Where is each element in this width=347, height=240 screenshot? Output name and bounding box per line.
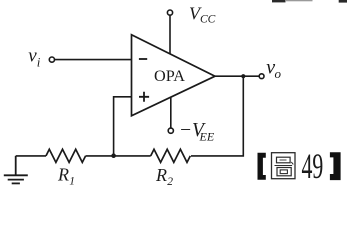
terminal circle -VEE (168, 128, 173, 133)
svg-text:R: R (155, 165, 167, 185)
resistor R2 zigzag (151, 149, 191, 162)
op-amp U1 triangle (132, 35, 216, 116)
cut-off caption at top edge: tu bottom stroke (272, 0, 286, 2)
wire op-amp bottom edge to -VEE terminal (170, 97, 172, 128)
junction node at bottom between R1 and R2 (111, 153, 116, 158)
svg-text:i: i (37, 54, 41, 69)
caption figure 49: character tu (picture) (272, 153, 296, 179)
caption figure 49: right lenticular bracket (330, 152, 341, 180)
resistor R1 zigzag (46, 149, 86, 162)
wire output junction down to R2 right end (191, 76, 243, 156)
caption figure 49: left lenticular bracket (258, 153, 266, 180)
terminal circle vo (259, 74, 264, 79)
wire R1 to node to R2 (86, 155, 151, 157)
wire op-amp noninverting input down to bottom node (114, 97, 132, 156)
junction node at output (241, 74, 245, 78)
cut-off caption at top edge: digit bottoms (286, 0, 313, 1)
svg-text:49: 49 (302, 146, 324, 186)
terminal circle vi (49, 57, 54, 62)
svg-text:o: o (275, 66, 282, 81)
svg-text:CC: CC (200, 14, 216, 26)
wire input vi to op-amp inverting input (55, 59, 132, 61)
op-amp plus pin mark (139, 92, 149, 102)
svg-text:EE: EE (199, 129, 215, 143)
svg-text:2: 2 (167, 176, 173, 188)
terminal circle VCC (167, 10, 172, 15)
op-amp minus pin mark (139, 58, 147, 60)
wire ground to R1 (16, 155, 46, 157)
cut-off caption at top edge: right bracket tip (339, 0, 347, 3)
wire VCC terminal to op-amp top edge (169, 15, 171, 54)
svg-text:R: R (57, 165, 69, 185)
wire op-amp output to vo terminal (215, 75, 259, 77)
svg-text:OPA: OPA (154, 68, 185, 85)
ground symbol (4, 156, 28, 184)
svg-text:1: 1 (69, 176, 75, 188)
